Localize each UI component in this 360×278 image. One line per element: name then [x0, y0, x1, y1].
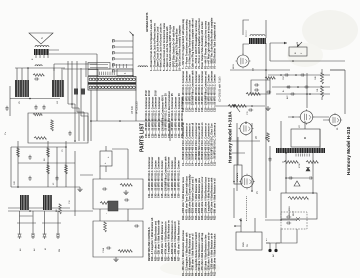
- svg-text:RECT: RECT: [293, 210, 295, 216]
- B+ rail 1: [268, 73, 330, 76]
- svg-text:(C)=C(M)(S) with R1(M): (C)=C(M)(S) with R1(M): [219, 76, 222, 102]
- switch row marks: [113, 64, 127, 68]
- tube V3: [236, 54, 256, 72]
- parts list column B: [150, 19, 181, 71]
- B plus box: [289, 47, 307, 56]
- parts list column C1: [181, 229, 217, 276]
- AC switch dashed box: [281, 212, 307, 229]
- arrow feed: [270, 41, 299, 45]
- svg-text:a c: a c: [266, 238, 268, 241]
- svg-text:TO V C: TO V C: [246, 30, 248, 37]
- ground: [265, 106, 270, 111]
- parts list column C3: [182, 122, 217, 166]
- svg-text:C10A: C10A: [102, 247, 105, 253]
- svg-text:37 KC: 37 KC: [130, 106, 134, 114]
- AVC dotted lead: [246, 196, 248, 221]
- svg-text:C50—.05 MFD 400 V.D.C. Conden: C50—.05 MFD 400 V.D.C. Conden: [178, 160, 181, 198]
- svg-text:V3—35Z5 Rectifier Tube Complet: V3—35Z5 Rectifier Tube Complete with cl: [214, 22, 217, 69]
- wire trans leads: [234, 218, 255, 232]
- wire jacks to tuner: [8, 211, 93, 223]
- svg-text:R27—47K ohm ½ Watt Resistor an: R27—47K ohm ½ Watt Resistor and: [177, 220, 181, 261]
- capacitor C6: [74, 89, 78, 95]
- filter choke bar: [276, 148, 325, 153]
- wire jack feed: [97, 54, 133, 121]
- diagonal arrow: [297, 42, 302, 47]
- capacitor C10A: [102, 246, 111, 253]
- phono jack J1: [17, 223, 36, 239]
- phono jack J2: [42, 223, 61, 239]
- jack strip baseline: [132, 35, 134, 76]
- tuning gang condenser: [88, 77, 136, 91]
- oscillator box: [28, 113, 88, 143]
- tube V6: [299, 109, 314, 128]
- jack contacts: [112, 39, 133, 72]
- parts list column A2: [145, 90, 184, 138]
- wires lower right: [288, 70, 345, 120]
- tuner grid wires: [8, 141, 70, 208]
- gang trimmer rect B: [117, 69, 133, 76]
- capacitor C34: [124, 198, 129, 201]
- resistor R17: [120, 184, 132, 187]
- wires PS section: [281, 121, 320, 193]
- IF transformer can: [234, 165, 242, 184]
- svg-text:C11—.05 MFD 600 V.A.C. Condens: C11—.05 MFD 600 V.A.C. Condenser p: [214, 122, 217, 166]
- gang feed wire: [85, 61, 87, 77]
- selenium rectifier box: [281, 193, 317, 219]
- svg-text:SELENIUM: SELENIUM: [289, 206, 291, 216]
- chassis wire: [90, 90, 170, 141]
- parts list column C5: [182, 17, 217, 69]
- capacitor C15: [247, 108, 253, 115]
- rectifier diode: [306, 168, 310, 172]
- svg-text:6BJ6: 6BJ6: [233, 63, 235, 69]
- capacitor pair row: [34, 105, 45, 110]
- svg-text:470K: 470K: [299, 163, 301, 168]
- plate line: [10, 86, 60, 116]
- svg-text:Harmony Model H-310: Harmony Model H-310: [346, 126, 351, 175]
- junction node: [130, 32, 134, 36]
- electrolytic block C10B: [106, 201, 118, 214]
- coupling box: [251, 80, 270, 94]
- capacitor C51: [5, 106, 8, 111]
- resistor R33: [56, 199, 71, 214]
- svg-text:PM: PM: [59, 249, 61, 252]
- resistor R30: [34, 137, 46, 140]
- capacitor C31: [28, 155, 31, 160]
- B+ rail 2: [272, 85, 330, 88]
- detector resistor: [267, 133, 270, 142]
- svg-text:PWR: PWR: [243, 242, 245, 247]
- svg-text:OSC: OSC: [283, 75, 285, 80]
- coil L5: [43, 195, 52, 210]
- svg-text:R11—680K ohm ½ Watt Resistor p: R11—680K ohm ½ Watt Resistor plus: [213, 233, 217, 276]
- IF label: [130, 101, 139, 114]
- parts list column C4: [182, 70, 217, 112]
- parts list column A1: [148, 156, 181, 198]
- output transformer T3: [32, 46, 49, 60]
- detector box: [93, 179, 143, 209]
- gang trimmer ticks: [100, 72, 115, 75]
- svg-text:ANTENNA PARTS: ANTENNA PARTS: [146, 12, 149, 32]
- resistor R12: [17, 148, 20, 157]
- coil L2: [35, 65, 42, 66]
- tube V1: [239, 174, 259, 194]
- resistor R13: [47, 148, 50, 157]
- tube V7 pilot: [328, 113, 342, 130]
- IF can V5: [15, 80, 29, 104]
- capacitor C4: [68, 131, 71, 136]
- tube V2: [239, 121, 259, 139]
- resistor R5: [104, 222, 107, 232]
- gang trimmer rect A: [88, 70, 98, 76]
- resistor R15: [65, 165, 68, 174]
- svg-text:C40: C40: [315, 77, 317, 80]
- wire filter links: [100, 209, 128, 221]
- grid line: [15, 68, 65, 80]
- AVC line capacitor: [268, 146, 271, 191]
- electrolytic C10: [100, 146, 112, 172]
- dropping resistor row: [321, 69, 324, 100]
- wire plug to switch: [265, 220, 297, 243]
- jack labels: [19, 248, 61, 252]
- B+ rail labels: [283, 75, 319, 99]
- power transformer box: [236, 232, 262, 250]
- B+ rail 3: [276, 92, 330, 95]
- wire detector links: [80, 149, 128, 179]
- right rail: [270, 43, 345, 61]
- capacitor C32: [55, 176, 58, 181]
- choke hatch: [296, 154, 309, 157]
- resistor R6: [118, 250, 132, 253]
- capacitor C7: [81, 89, 85, 95]
- tiny labels tuner: [14, 149, 64, 185]
- wire speaker to jacks: [49, 50, 97, 54]
- resistor R31: [33, 74, 44, 77]
- capacitor C8: [134, 224, 139, 227]
- svg-text:AVC: AVC: [286, 95, 289, 99]
- filter caps under choke: [284, 161, 318, 180]
- speaker: [29, 33, 53, 44]
- resistor R4: [51, 120, 54, 131]
- wire tuner bottom: [66, 151, 80, 216]
- top rail: [234, 137, 238, 218]
- phono plug: [294, 181, 300, 186]
- capacitor C5: [34, 77, 39, 80]
- parts list column A0: [150, 217, 180, 261]
- ground: [77, 187, 82, 192]
- bypass capacitor: [266, 90, 271, 93]
- wire output: [243, 20, 266, 55]
- ground: [113, 257, 118, 262]
- AC plug: [266, 243, 280, 257]
- line capacitors: [286, 215, 300, 224]
- svg-text:IF C23,25: IF C23,25: [135, 101, 139, 114]
- capacitor C33: [102, 187, 107, 190]
- parts list column C2: [181, 174, 217, 220]
- output transformer: [249, 34, 266, 44]
- IF can V4: [52, 80, 64, 104]
- osc padder coil: [138, 66, 148, 67]
- B+ crossbar: [306, 73, 308, 108]
- B+ bus jog: [68, 104, 88, 116]
- cathode resistor: [265, 77, 275, 80]
- wire mid rails: [215, 43, 345, 218]
- B+ bus wires upper: [68, 61, 81, 104]
- svg-text:Harmony Model H-310A: Harmony Model H-310A: [228, 111, 233, 163]
- ground: [123, 190, 128, 195]
- svg-text:M: M: [45, 248, 47, 250]
- wire section border: [54, 64, 133, 71]
- resistor R14: [47, 165, 50, 174]
- svg-text:10—Dial Cord Drive Assembly Co: 10—Dial Cord Drive Assembly Complete: [179, 25, 182, 71]
- resistor R32: [33, 113, 42, 115]
- volume control pot: [228, 104, 246, 112]
- coil L4: [20, 195, 29, 210]
- detector wire: [232, 141, 260, 153]
- svg-text:R22—56K ohm ½ Watt Resistor in: R22—56K ohm ½ Watt Resistor in all: [213, 178, 217, 220]
- B+ bus wires lower: [75, 104, 88, 141]
- grid resistor: [246, 93, 260, 96]
- capacitor C30: [28, 176, 31, 181]
- switch row box: [88, 63, 110, 70]
- filter box: [93, 221, 143, 257]
- svg-text:C41: C41: [317, 89, 319, 92]
- power transformer (large): [291, 129, 320, 147]
- svg-text:AC: AC: [272, 254, 275, 257]
- resistor R16: [100, 202, 112, 205]
